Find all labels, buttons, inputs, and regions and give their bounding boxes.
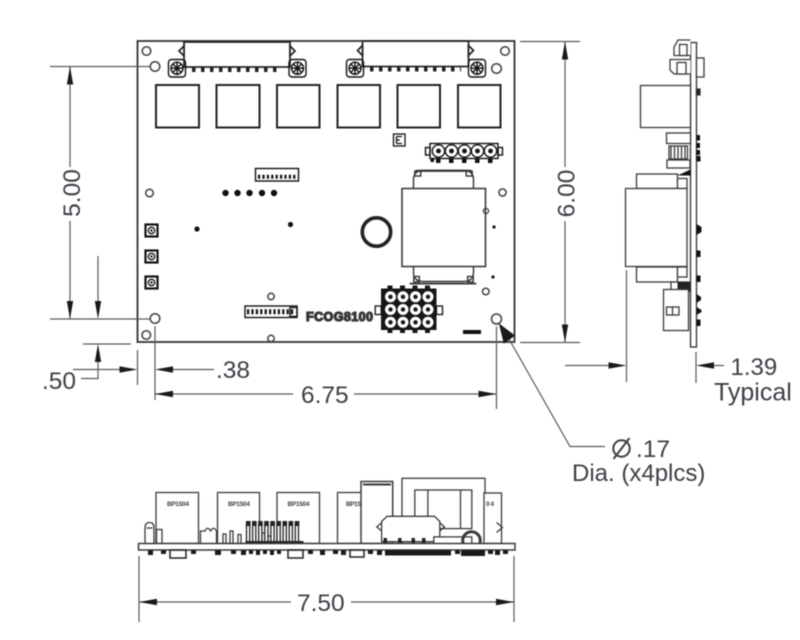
side component S3 <box>146 277 158 289</box>
diameter symbol <box>613 438 629 459</box>
relay K1 <box>156 85 199 128</box>
connector J2 screwlock left <box>347 60 364 78</box>
6.00 extension line bottom <box>520 342 580 344</box>
via above H2 <box>268 293 274 299</box>
svg-text:.38: .38 <box>216 357 250 384</box>
bv relay 4 (partial) <box>338 493 363 544</box>
bv relay 2 <box>218 493 260 544</box>
mounting hole bottom-left <box>150 314 160 324</box>
.50 leader <box>81 378 99 380</box>
bv pin header comb <box>247 525 299 544</box>
left hole extension line <box>154 326 156 400</box>
side pcb strip <box>691 43 697 348</box>
via right of transformer <box>499 189 506 196</box>
via dot C <box>492 225 495 228</box>
side transformer cap <box>637 174 678 189</box>
side pins mid <box>697 135 701 162</box>
svg-text:6.00: 6.00 <box>554 170 581 218</box>
connector J1 screwlock left <box>169 60 186 78</box>
svg-text:BP1504: BP1504 <box>167 501 189 508</box>
5.00 dimension line <box>69 67 71 320</box>
.38 left arrow tail <box>73 369 122 371</box>
connector J1 body <box>179 42 295 70</box>
side pin grid <box>664 290 689 331</box>
via left <box>146 189 154 197</box>
bv ring <box>463 532 481 550</box>
small component U3 <box>394 134 406 146</box>
terminal strip J3 pins <box>432 145 496 157</box>
side component S1 <box>146 225 158 237</box>
.50 dim upper arrow shaft <box>97 256 99 303</box>
mounting hole top-left <box>150 62 160 72</box>
1.39 left extension line <box>626 270 628 382</box>
silkscreen dash <box>463 330 481 334</box>
arrowhead 5.00 bottom <box>67 301 73 319</box>
arrowhead .50 lower <box>95 344 101 362</box>
mounting hole top-right <box>492 64 502 74</box>
arrowhead dia leader <box>499 323 515 343</box>
6.00 dimension line <box>564 42 566 343</box>
bv transformer front <box>402 478 485 544</box>
relay K4 <box>338 85 381 128</box>
svg-text:.50: .50 <box>42 368 76 395</box>
relay K2 <box>217 85 260 128</box>
bv pcb strip <box>139 544 516 551</box>
bv relay 6 (partial) <box>484 493 502 544</box>
pin header H1 <box>256 169 299 182</box>
1.39 right arrow tail <box>711 365 724 367</box>
bv pins left of comb <box>223 531 241 544</box>
mounting hole bottom-right <box>492 314 502 324</box>
5.00 extension line bottom (hole centerline) <box>50 318 150 320</box>
svg-text:5.00: 5.00 <box>59 169 86 217</box>
bv relay 3 <box>277 493 320 544</box>
7.50 dimension line <box>139 601 514 603</box>
arrowhead .50 upper <box>95 301 101 319</box>
side component S2 <box>146 251 158 263</box>
bv terminal legs <box>384 538 426 543</box>
svg-text:BP1504: BP1504 <box>288 501 310 508</box>
bv terminal wings <box>377 523 382 531</box>
svg-text:7.50: 7.50 <box>297 590 345 617</box>
7.50 right extension line <box>513 556 515 622</box>
relay K6 <box>458 85 501 128</box>
corner hole top-left <box>142 47 151 56</box>
bv terminal connector front <box>382 516 440 541</box>
bv solder pins below strip <box>148 550 508 558</box>
transformer T1 body <box>402 189 486 267</box>
side relay <box>641 86 691 128</box>
pin header H2 <box>245 306 297 318</box>
7.50 left extension line <box>138 556 140 622</box>
transformer T1 bottom cap <box>410 267 477 284</box>
via below H2 <box>268 335 274 341</box>
arrowhead 6.00 bottom <box>562 325 568 343</box>
via dot A <box>194 226 199 231</box>
arrowhead 6.00 top <box>562 42 568 60</box>
board outline top view <box>138 41 515 342</box>
arrowhead 7.50 right <box>496 599 514 605</box>
svg-text:1.39: 1.39 <box>731 354 778 381</box>
right hole extension line <box>496 327 498 410</box>
side pins lower <box>697 224 702 326</box>
board left edge extension <box>137 350 139 385</box>
side transformer body <box>626 189 688 267</box>
connector J2 screwlock right <box>469 60 486 78</box>
bv left capacitor <box>145 523 154 544</box>
svg-text:04: 04 <box>486 501 494 508</box>
side transformer wedge <box>678 170 691 176</box>
1.39 left arrow tail <box>565 365 612 367</box>
via dot D <box>491 275 494 278</box>
bv small part between relay1-2 <box>201 528 217 543</box>
bv transformer core window <box>415 490 472 529</box>
board bottom extension line left <box>83 343 131 345</box>
arrowhead 1.39 right <box>696 362 714 368</box>
bv pins between relay2-3 <box>262 533 271 544</box>
.38 right arrow tail <box>171 369 214 371</box>
6.00 extension line top <box>520 41 580 43</box>
via row of 5 test points <box>222 190 277 196</box>
arrowhead 7.50 left <box>139 599 157 605</box>
corner hole top-right <box>501 47 510 56</box>
arrowhead .38 left <box>120 366 138 372</box>
via dot B <box>288 222 293 227</box>
side top connector <box>674 40 691 56</box>
svg-text:BP1504: BP1504 <box>228 501 250 508</box>
dia leader polyline <box>509 339 605 447</box>
arrowhead 6.75 left <box>155 391 173 397</box>
via E <box>483 288 490 295</box>
bv relay 1 <box>156 493 199 544</box>
power pin grid J4 <box>375 286 442 334</box>
6.75 dimension line <box>155 393 497 395</box>
relay K3 <box>277 85 320 128</box>
corner hole bottom-left <box>142 331 151 340</box>
relay K5 <box>398 85 441 128</box>
side lower connector <box>671 282 690 292</box>
arrowhead .38 right <box>155 366 173 372</box>
arrowhead 5.00 top <box>67 67 73 85</box>
terminal strip J3 <box>426 144 503 159</box>
svg-text:6.75: 6.75 <box>301 382 349 409</box>
svg-text:Typical: Typical <box>714 379 792 407</box>
svg-text:.17: .17 <box>636 436 670 463</box>
inductor ring L1 <box>362 218 390 246</box>
connector J1 screwlock right <box>289 60 306 78</box>
bv tall capacitor box <box>361 482 393 544</box>
svg-text:Dia. (x4plcs): Dia. (x4plcs) <box>572 460 705 487</box>
transformer T1 top cap <box>414 171 474 189</box>
small circle on transformer edge <box>483 208 488 213</box>
svg-text:FCOG8100: FCOG8100 <box>306 310 373 324</box>
connector J2 body <box>358 41 474 69</box>
side relay pin <box>697 89 701 95</box>
arrowhead 6.75 right <box>479 391 497 397</box>
side transformer bottom cap <box>637 267 678 282</box>
.50 dim lower arrow shaft <box>97 360 99 379</box>
bv white front box <box>434 537 472 544</box>
side small blocks <box>667 133 691 144</box>
arrowhead 1.39 left <box>609 362 627 368</box>
side screwlock nut <box>697 58 705 77</box>
5.00 extension line top <box>50 66 150 68</box>
svg-text:BP15: BP15 <box>346 501 361 508</box>
bv relay labels <box>167 501 494 508</box>
1.39 right extension line <box>695 352 697 383</box>
